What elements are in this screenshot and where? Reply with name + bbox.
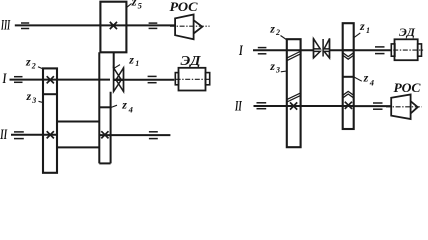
fixed joint x on spindle at shaft II: [101, 131, 108, 138]
shaft III: [15, 24, 175, 26]
coupling marks on shaft III: [149, 23, 158, 28]
svg-text:z: z: [359, 19, 365, 33]
POC tachogenerator symbol (right): [391, 95, 410, 120]
svg-text:z: z: [131, 0, 137, 9]
svg-text:ЭД: ЭД: [399, 25, 416, 39]
spindle column step divider: [99, 106, 110, 108]
svg-text:II: II: [234, 99, 242, 115]
svg-text:РОС: РОС: [394, 80, 421, 95]
svg-text:I: I: [238, 43, 243, 59]
spindle column upper right edge: [113, 52, 115, 68]
svg-text:z: z: [128, 52, 134, 66]
shaft I clutch to motor: [330, 49, 392, 51]
motor ED symbol (right): [391, 44, 395, 56]
label z5: [126, 4, 131, 8]
shaft II (right): [254, 105, 354, 107]
bearing on shaft I (right): [258, 48, 267, 54]
svg-text:1: 1: [135, 59, 139, 68]
svg-text:4: 4: [369, 78, 374, 88]
svg-text:РОС: РОС: [170, 0, 198, 14]
svg-text:2: 2: [31, 62, 36, 71]
svg-text:II: II: [0, 127, 8, 143]
wide gear mesh lines between blocks: [57, 121, 99, 123]
POC tachogenerator symbol (left): [175, 15, 194, 40]
svg-text:z: z: [26, 89, 32, 103]
svg-text:5: 5: [138, 1, 143, 11]
fixed joint x on left block at shaft II: [290, 102, 297, 109]
shaft I from clutch to motor: [124, 79, 174, 81]
svg-text:z: z: [25, 55, 31, 69]
POC centerline (right): [386, 106, 422, 108]
shaft I (left): [10, 79, 111, 81]
divider between z1 and z4: [343, 76, 354, 78]
POC centerline (left): [170, 25, 210, 27]
coupling marks before POC (right): [373, 103, 383, 109]
coupling marks on shaft I (right): [375, 47, 385, 54]
svg-text:1: 1: [366, 26, 370, 35]
svg-text:III: III: [0, 17, 10, 33]
bearing on shaft II (right): [257, 103, 267, 109]
pulley block z5: [100, 2, 126, 53]
fixed joint x on shaft I: [47, 76, 54, 83]
motor ED symbol (left): [175, 73, 178, 85]
fixed joint x on shaft II: [47, 131, 54, 138]
free-wheel hatch below shaft I: [287, 52, 300, 61]
svg-text:z: z: [121, 97, 127, 111]
bearing on shaft I left: [14, 77, 23, 83]
bearing on shaft III left: [21, 23, 29, 29]
fixed joint x on right block at shaft II: [345, 102, 352, 109]
svg-text:ЭД: ЭД: [181, 53, 202, 68]
bearing at shaft II right end: [149, 132, 158, 139]
svg-text:2: 2: [275, 28, 280, 37]
gear block z2-z3 (right): [287, 39, 301, 147]
shaft II right segment: [99, 134, 170, 136]
divider between z2 and z3: [43, 93, 57, 95]
fixed joint x on shaft III: [110, 22, 117, 29]
shaft I (right): [253, 49, 314, 51]
spindle column bottom edge: [99, 162, 110, 164]
spindle column lower right edge: [110, 92, 112, 164]
cone friction clutch (left diagram, engaged): [114, 67, 124, 91]
free-wheel hatch above shaft II: [287, 93, 300, 102]
svg-text:z: z: [269, 22, 275, 36]
shaft II (left): [11, 134, 57, 136]
shaft I through block (right): [343, 49, 354, 51]
svg-text:I: I: [2, 71, 7, 87]
svg-text:3: 3: [31, 96, 36, 105]
gear block z1-z4 (right): [343, 23, 354, 129]
svg-text:3: 3: [275, 66, 280, 75]
gear block z2-z3: [43, 68, 57, 172]
spline chevrons below shaft I: [343, 53, 354, 59]
svg-text:z: z: [269, 59, 275, 73]
spindle column left edge: [98, 52, 100, 163]
spline chevrons above shaft II: [343, 91, 354, 97]
cone friction clutch (right diagram, disengaged): [314, 38, 330, 58]
shaft II to POC (right): [354, 105, 392, 107]
svg-text:z: z: [363, 70, 369, 84]
svg-text:4: 4: [128, 105, 133, 115]
bearing on shaft II left: [14, 132, 24, 139]
coupling marks on shaft I (left): [148, 76, 157, 82]
